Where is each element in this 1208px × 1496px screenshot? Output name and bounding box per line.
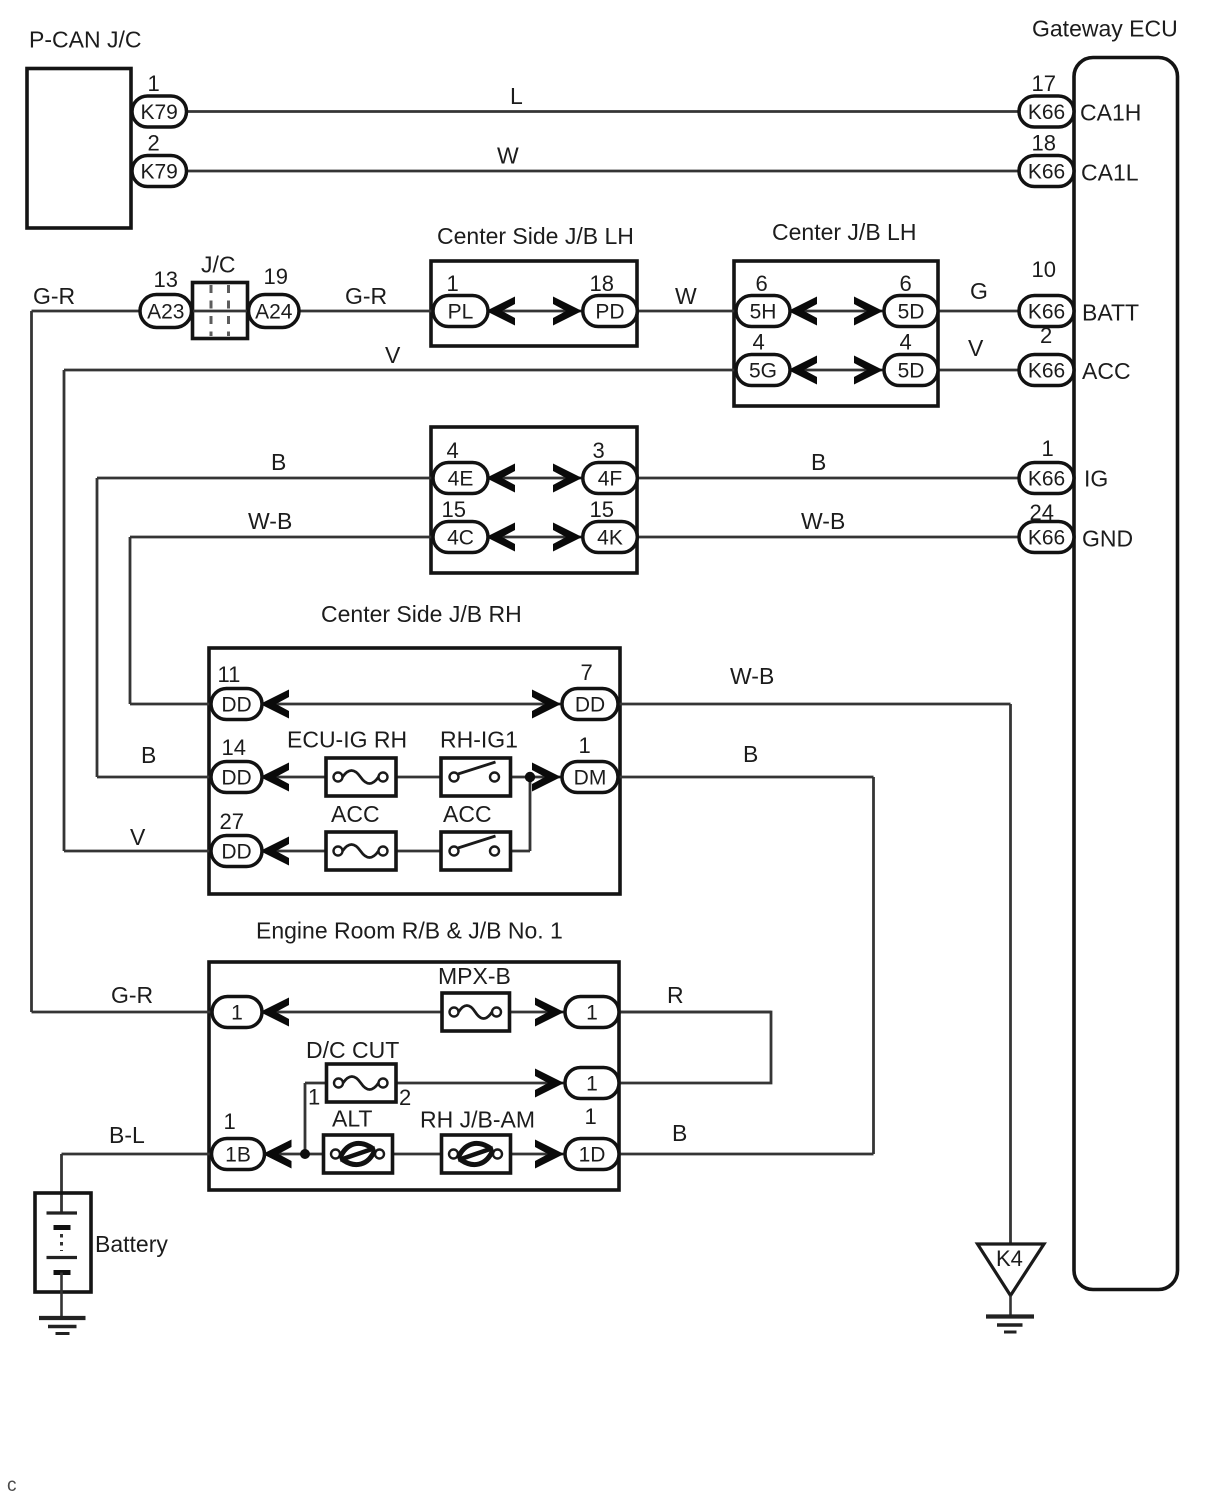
connector 1 ER row2 right bbox=[565, 1068, 619, 1099]
fuse ACC bbox=[326, 832, 396, 870]
accessory switch relay ACC bbox=[441, 832, 511, 870]
svg-text:G-R: G-R bbox=[111, 982, 153, 1008]
svg-text:1: 1 bbox=[579, 733, 591, 758]
svg-text:B: B bbox=[811, 449, 826, 475]
connector arrow PL female bbox=[486, 297, 515, 326]
svg-text:G-R: G-R bbox=[33, 283, 75, 309]
ground point K4 bbox=[978, 1244, 1045, 1332]
Center Side J/B LH block (lower) bbox=[431, 427, 637, 573]
connector 4E pin 4 bbox=[433, 463, 488, 494]
connector arrow DD-27 female bbox=[260, 837, 289, 866]
svg-text:B: B bbox=[743, 741, 758, 767]
svg-text:3: 3 bbox=[593, 438, 605, 463]
connector DD pin 11 bbox=[211, 689, 262, 720]
svg-text:4: 4 bbox=[900, 330, 912, 355]
svg-text:J/C: J/C bbox=[201, 252, 236, 278]
connector arrow DM-1 male bbox=[532, 763, 561, 792]
svg-text:Battery: Battery bbox=[95, 1231, 168, 1257]
fuse MPX-B bbox=[442, 993, 510, 1031]
svg-text:Center J/B LH: Center J/B LH bbox=[772, 219, 916, 245]
svg-text:B: B bbox=[672, 1120, 687, 1146]
svg-text:ECU-IG RH: ECU-IG RH bbox=[287, 727, 407, 753]
connector K66 pin 10 bbox=[1019, 296, 1074, 327]
wire W-B row to GND bbox=[130, 536, 1019, 539]
connector K66 pin 1 bbox=[1019, 463, 1074, 494]
svg-text:4: 4 bbox=[447, 438, 459, 463]
svg-text:1: 1 bbox=[308, 1085, 320, 1110]
svg-text:W: W bbox=[675, 283, 697, 309]
svg-text:A23: A23 bbox=[147, 301, 184, 324]
wire B vertical drop bbox=[96, 478, 99, 777]
svg-text:R: R bbox=[667, 982, 684, 1008]
svg-text:1: 1 bbox=[585, 1104, 597, 1129]
Center J/B LH block bbox=[734, 261, 938, 406]
svg-text:1: 1 bbox=[148, 71, 160, 96]
connector A24 pin 19 bbox=[249, 295, 300, 328]
svg-text:4C: 4C bbox=[447, 527, 474, 550]
svg-text:W: W bbox=[497, 143, 519, 169]
svg-text:W-B: W-B bbox=[248, 508, 292, 534]
connector arrow DD-14 female bbox=[260, 763, 289, 792]
connector K66 pin 18 bbox=[1019, 156, 1074, 187]
connector arrow ER row1 female bbox=[260, 998, 289, 1027]
Engine Room R/B &amp; J/B No. 1 block bbox=[209, 962, 619, 1190]
J/C junction connector block bbox=[193, 283, 248, 339]
connector 4C pin 15 bbox=[433, 522, 488, 553]
svg-text:5H: 5H bbox=[750, 301, 777, 324]
svg-text:15: 15 bbox=[590, 497, 614, 522]
connector arrow 4F male bbox=[553, 464, 582, 493]
connector PL pin 1 bbox=[433, 296, 488, 327]
ignition switch relay RH-IG1 bbox=[441, 758, 511, 796]
svg-text:c: c bbox=[7, 1475, 17, 1496]
svg-text:ALT: ALT bbox=[332, 1106, 372, 1132]
connector 5G pin 4 bbox=[736, 355, 790, 386]
connector A23 pin 13 bbox=[140, 295, 192, 328]
wire B-L battery row bbox=[62, 1153, 874, 1156]
svg-text:V: V bbox=[968, 335, 984, 361]
svg-text:4E: 4E bbox=[448, 468, 474, 491]
connector arrow ER row2 male bbox=[535, 1069, 564, 1098]
svg-text:K66: K66 bbox=[1028, 468, 1065, 491]
svg-text:D/C CUT: D/C CUT bbox=[306, 1037, 399, 1063]
svg-text:B: B bbox=[141, 742, 156, 768]
svg-text:K66: K66 bbox=[1028, 101, 1065, 124]
svg-text:4: 4 bbox=[753, 330, 765, 355]
ground (battery) bbox=[39, 1318, 86, 1334]
svg-text:K66: K66 bbox=[1028, 161, 1065, 184]
wire G-R into Engine Room R/B bbox=[32, 1011, 772, 1014]
svg-text:K79: K79 bbox=[141, 161, 178, 184]
svg-text:DM: DM bbox=[574, 767, 607, 790]
svg-text:18: 18 bbox=[590, 271, 614, 296]
connector 5D pin 6 bbox=[884, 296, 938, 327]
connector arrow 1B female bbox=[263, 1140, 292, 1169]
connector DD pin 14 bbox=[211, 762, 262, 793]
svg-text:K79: K79 bbox=[141, 101, 178, 124]
fusible link ALT bbox=[324, 1135, 393, 1173]
svg-text:2: 2 bbox=[148, 131, 160, 156]
svg-text:ACC: ACC bbox=[331, 801, 380, 827]
connector 4F pin 3 bbox=[583, 463, 638, 494]
connector arrow PD male bbox=[553, 297, 582, 326]
connector arrow DD-7 male bbox=[532, 690, 561, 719]
wire V vertical drop bbox=[63, 370, 66, 851]
svg-text:6: 6 bbox=[900, 271, 912, 296]
svg-text:L: L bbox=[510, 83, 523, 109]
connector 1B pin 1 bbox=[212, 1139, 265, 1170]
svg-text:RH-IG1: RH-IG1 bbox=[440, 727, 518, 753]
svg-text:13: 13 bbox=[154, 267, 178, 292]
svg-text:1: 1 bbox=[224, 1109, 236, 1134]
connector K66 pin 17 bbox=[1019, 96, 1074, 127]
wire W : K79-2 to K66-18 bbox=[187, 170, 1020, 173]
svg-text:W-B: W-B bbox=[801, 508, 845, 534]
Center Side J/B LH block (upper) bbox=[431, 261, 637, 346]
connector 5D pin 4 bbox=[884, 355, 938, 386]
wire V into DD-27 bbox=[64, 850, 530, 853]
connector K66 pin 2 bbox=[1019, 355, 1074, 386]
connector K79 pin 1 bbox=[132, 96, 187, 127]
svg-text:CA1H: CA1H bbox=[1080, 100, 1141, 126]
svg-text:GND: GND bbox=[1082, 526, 1133, 552]
svg-text:B: B bbox=[271, 449, 286, 475]
svg-text:5D: 5D bbox=[898, 301, 925, 324]
svg-text:2: 2 bbox=[1040, 323, 1052, 348]
svg-text:1: 1 bbox=[447, 271, 459, 296]
fusible link RH J/B-AM bbox=[442, 1135, 511, 1173]
svg-text:RH J/B-AM: RH J/B-AM bbox=[420, 1107, 535, 1133]
connector 4K pin 15 bbox=[583, 522, 638, 553]
svg-text:CA1L: CA1L bbox=[1081, 160, 1139, 186]
svg-text:4K: 4K bbox=[597, 527, 623, 550]
wire L : K79-1 to K66-17 bbox=[187, 110, 1020, 113]
svg-text:PD: PD bbox=[595, 301, 624, 324]
wire B into DD-14 row bbox=[97, 776, 874, 779]
svg-text:W-B: W-B bbox=[730, 663, 774, 689]
svg-text:5D: 5D bbox=[898, 360, 925, 383]
connector PD pin 18 bbox=[583, 296, 638, 327]
svg-text:2: 2 bbox=[399, 1085, 411, 1110]
svg-text:ACC: ACC bbox=[443, 801, 492, 827]
connector 1 ER row1 left bbox=[212, 997, 262, 1028]
svg-text:14: 14 bbox=[222, 735, 246, 760]
svg-text:11: 11 bbox=[218, 662, 241, 687]
connector DD pin 27 bbox=[211, 836, 262, 867]
svg-text:5G: 5G bbox=[749, 360, 777, 383]
svg-text:1: 1 bbox=[586, 1002, 598, 1025]
wire R loop right side bbox=[305, 1012, 771, 1083]
connector arrow ER row1 male bbox=[535, 998, 564, 1027]
svg-text:1D: 1D bbox=[579, 1144, 606, 1167]
svg-text:K66: K66 bbox=[1028, 527, 1065, 550]
Center Side J/B RH block bbox=[209, 648, 620, 894]
wire W-B vertical drop bbox=[129, 537, 132, 704]
svg-text:Center Side J/B RH: Center Side J/B RH bbox=[321, 601, 522, 627]
svg-text:1: 1 bbox=[586, 1073, 598, 1096]
connector K79 pin 2 bbox=[132, 156, 187, 187]
wire V row to ACC bbox=[64, 369, 1019, 372]
wire battery positive lead bbox=[60, 1154, 63, 1213]
svg-text:V: V bbox=[385, 342, 401, 368]
svg-text:MPX-B: MPX-B bbox=[438, 963, 511, 989]
node: ACC branch junction bbox=[525, 772, 535, 782]
wire B down right side bbox=[872, 777, 875, 1154]
svg-text:B-L: B-L bbox=[109, 1122, 145, 1148]
svg-text:BATT: BATT bbox=[1082, 300, 1139, 326]
wire G-R vertical drop bbox=[30, 311, 33, 1012]
fuse ECU-IG RH bbox=[326, 758, 396, 796]
svg-text:17: 17 bbox=[1032, 71, 1056, 96]
svg-text:Engine Room R/B & J/B No. 1: Engine Room R/B & J/B No. 1 bbox=[256, 918, 563, 944]
battery bbox=[35, 1193, 91, 1317]
P-CAN J/C block bbox=[27, 69, 131, 229]
fuse D/C CUT bbox=[327, 1064, 397, 1102]
svg-text:K66: K66 bbox=[1028, 301, 1065, 324]
svg-text:6: 6 bbox=[756, 271, 768, 296]
connector DM pin 1 bbox=[562, 762, 618, 793]
svg-text:7: 7 bbox=[581, 660, 593, 685]
svg-text:19: 19 bbox=[264, 264, 288, 289]
connector arrow 4E female bbox=[486, 464, 515, 493]
connector arrow 4C female bbox=[486, 523, 515, 552]
svg-text:1B: 1B bbox=[225, 1144, 251, 1167]
connector 1D pin 1 bbox=[565, 1139, 619, 1170]
connector DD pin 7 bbox=[562, 689, 618, 720]
connector 5H pin 6 bbox=[736, 296, 790, 327]
svg-text:G: G bbox=[970, 278, 988, 304]
svg-text:DD: DD bbox=[221, 841, 251, 864]
node: ALT / D-C CUT junction bbox=[300, 1149, 310, 1159]
connector arrow DD-11 female bbox=[260, 690, 289, 719]
wire D/C CUT drop to node bbox=[304, 1083, 307, 1154]
wire W-B DD-11 row to K4 bbox=[130, 703, 1011, 706]
svg-text:24: 24 bbox=[1030, 500, 1054, 525]
connector K66 pin 24 bbox=[1019, 522, 1074, 553]
connector arrow 5D male bbox=[854, 297, 883, 326]
svg-text:DD: DD bbox=[221, 694, 251, 717]
svg-text:IG: IG bbox=[1084, 466, 1108, 492]
svg-text:A24: A24 bbox=[255, 301, 293, 324]
svg-text:G-R: G-R bbox=[345, 283, 387, 309]
connector arrow 5D male row2 bbox=[854, 356, 883, 385]
connector arrow 1D male bbox=[535, 1140, 564, 1169]
svg-text:P-CAN J/C: P-CAN J/C bbox=[29, 27, 141, 53]
svg-text:K66: K66 bbox=[1028, 360, 1065, 383]
svg-text:Gateway ECU: Gateway ECU bbox=[1032, 16, 1178, 42]
wire ACC branch riser bbox=[529, 777, 532, 851]
svg-text:K4: K4 bbox=[996, 1246, 1023, 1271]
svg-text:15: 15 bbox=[442, 497, 466, 522]
Gateway ECU block U-K66 bbox=[1074, 58, 1178, 1290]
connector arrow 5H female bbox=[788, 297, 817, 326]
svg-text:V: V bbox=[130, 824, 146, 850]
wire B row to IG bbox=[97, 477, 1019, 480]
svg-text:PL: PL bbox=[448, 301, 474, 324]
svg-text:Center Side J/B LH: Center Side J/B LH bbox=[437, 223, 634, 249]
svg-text:27: 27 bbox=[220, 809, 244, 834]
wire G-R / W / G : row to BATT bbox=[32, 310, 1020, 313]
svg-text:DD: DD bbox=[575, 694, 605, 717]
svg-text:ACC: ACC bbox=[1082, 358, 1131, 384]
wire W-B down to ground K4 bbox=[1009, 704, 1012, 1244]
svg-text:4F: 4F bbox=[598, 468, 623, 491]
svg-text:18: 18 bbox=[1032, 131, 1056, 156]
connector arrow 5G female bbox=[788, 356, 817, 385]
connector 1 ER row1 right bbox=[565, 997, 619, 1028]
svg-text:DD: DD bbox=[221, 767, 251, 790]
svg-text:10: 10 bbox=[1032, 257, 1056, 282]
svg-text:1: 1 bbox=[1042, 436, 1054, 461]
connector arrow 4K male bbox=[553, 523, 582, 552]
svg-text:1: 1 bbox=[231, 1002, 243, 1025]
